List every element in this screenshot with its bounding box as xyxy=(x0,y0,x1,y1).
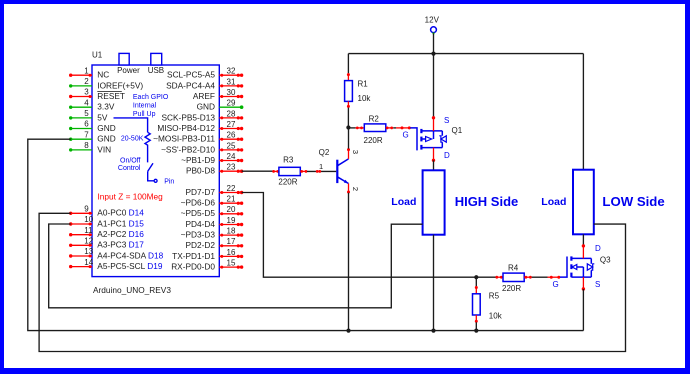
svg-text:U1: U1 xyxy=(92,51,103,60)
svg-text:26: 26 xyxy=(227,131,236,140)
U1 pin 29 GND xyxy=(197,99,244,112)
svg-text:220R: 220R xyxy=(364,136,383,145)
svg-text:28: 28 xyxy=(227,109,236,118)
junction node A (R1/R2/Q2 collector) xyxy=(346,125,350,129)
12V supply terminal xyxy=(425,16,440,35)
svg-text:29: 29 xyxy=(227,99,236,108)
wire high side load bottom to ground rail xyxy=(433,235,435,331)
internal pin terminal circle xyxy=(154,178,174,185)
svg-text:31: 31 xyxy=(227,77,236,86)
svg-text:PD4-D4: PD4-D4 xyxy=(185,219,215,229)
svg-text:VIN: VIN xyxy=(97,144,111,154)
resistor R5 xyxy=(473,294,481,315)
svg-text:220R: 220R xyxy=(502,284,521,293)
wire 12V rail to R1 xyxy=(347,54,350,81)
USB connector notch xyxy=(151,53,162,65)
U1 pin 4 3.3V xyxy=(69,98,115,111)
svg-text:A4-PC4-SDA D18: A4-PC4-SDA D18 xyxy=(97,250,163,260)
resistor R4 xyxy=(503,273,524,281)
wire 12V node to Q1 source xyxy=(432,54,435,131)
svg-text:GND: GND xyxy=(197,102,215,112)
U1 pin 28 SCK-PB5-D13 xyxy=(162,109,244,122)
svg-text:5: 5 xyxy=(84,109,89,118)
svg-text:D: D xyxy=(444,151,450,160)
U1 pin 14 A5-PC5-SCL xyxy=(69,258,163,271)
svg-text:Pull Up: Pull Up xyxy=(133,111,156,118)
svg-text:~PD5-D5: ~PD5-D5 xyxy=(181,208,216,218)
svg-text:~PD3-D3: ~PD3-D3 xyxy=(181,230,216,240)
svg-text:3: 3 xyxy=(84,88,89,97)
U1 pin 27 MISO-PB4-D12 xyxy=(157,120,243,133)
svg-text:IOREF(+5V): IOREF(+5V) xyxy=(97,80,143,90)
resistor R2 xyxy=(364,124,386,132)
U1 pin 31 SDA-PC4-A4 xyxy=(166,77,243,90)
svg-text:RESET: RESET xyxy=(97,91,125,101)
ground wire from U1 pin 7 GND (ground rail) xyxy=(28,139,584,330)
U1 pin 16 TX-PD1-D1 xyxy=(172,248,243,261)
svg-text:19: 19 xyxy=(227,216,236,225)
junction Q2 emitter / ground rail xyxy=(346,329,350,333)
svg-text:R2: R2 xyxy=(369,114,380,123)
U1 pin 2 IOREF(+5V) xyxy=(69,77,143,90)
svg-text:3: 3 xyxy=(351,150,360,154)
svg-text:15: 15 xyxy=(227,259,236,268)
wire U1 pin 23 PB0-D8 to R3 xyxy=(242,170,273,172)
U1 pin 24 ~PB1-D9 xyxy=(181,152,243,165)
wire 12V terminal to rail xyxy=(433,33,435,53)
U1 pin 13 A4-PC4-SDA xyxy=(69,247,164,260)
U1 pin 22 PD7-D7 xyxy=(185,184,243,197)
U1 pin 15 RX-PD0-D0 xyxy=(171,259,243,272)
wire R3 to Q2 base xyxy=(300,170,336,173)
junction high load / ground rail xyxy=(431,329,435,333)
U1 pin 21 ~PD6-D6 xyxy=(181,195,244,208)
svg-text:Load: Load xyxy=(391,196,416,208)
U1 pin 8 VIN xyxy=(69,141,111,154)
svg-text:12V: 12V xyxy=(425,16,440,25)
U1 pin 18 ~PD3-D3 xyxy=(181,227,244,240)
wire U1 pin 22 PD7-D7 to R4 and Q3 gate node xyxy=(242,193,496,278)
svg-text:13: 13 xyxy=(84,247,93,256)
svg-text:NC: NC xyxy=(97,70,109,80)
U1 pin 32 SCL-PC5-A5 xyxy=(167,67,243,80)
wire Q2 collector to node A xyxy=(347,128,350,159)
svg-text:27: 27 xyxy=(227,120,236,129)
U1 pin 12 A3-PC3 xyxy=(69,237,144,250)
svg-text:Q2: Q2 xyxy=(319,148,330,157)
svg-text:5V: 5V xyxy=(97,112,108,122)
wire R5 to ground rail xyxy=(475,315,478,331)
MOSFET Q1 (P-channel, high side) xyxy=(410,128,446,150)
svg-text:24: 24 xyxy=(227,152,236,161)
U1 pin 25 ~SS'-PB2-D10 xyxy=(161,141,243,154)
svg-text:USB: USB xyxy=(148,66,164,75)
svg-text:PD7-D7: PD7-D7 xyxy=(185,187,215,197)
svg-text:Arduino_UNO_REV3: Arduino_UNO_REV3 xyxy=(93,285,171,295)
U1 pin 10 A1-PC1 xyxy=(69,215,144,228)
svg-text:S: S xyxy=(595,280,600,289)
svg-text:1: 1 xyxy=(319,162,323,171)
svg-text:A0-PC0 D14: A0-PC0 D14 xyxy=(97,208,144,218)
svg-text:18: 18 xyxy=(227,227,236,236)
svg-text:A3-PC3 D17: A3-PC3 D17 xyxy=(97,240,144,250)
svg-text:30: 30 xyxy=(227,88,236,97)
U1 pin 17 PD2-D2 xyxy=(185,237,243,250)
U1 internal pull-up note: Each GPIO Internal Pull Up xyxy=(133,94,169,118)
svg-text:S: S xyxy=(444,116,449,125)
svg-text:9: 9 xyxy=(84,205,89,214)
svg-text:Input Z = 100Meg: Input Z = 100Meg xyxy=(98,192,164,202)
svg-text:10k: 10k xyxy=(489,312,503,321)
svg-text:22: 22 xyxy=(227,184,236,193)
wire Q1 drain to high side load xyxy=(432,148,435,171)
svg-text:~PD6-D6: ~PD6-D6 xyxy=(181,198,216,208)
svg-text:10k: 10k xyxy=(358,94,372,103)
svg-text:~SS'-PB2-D10: ~SS'-PB2-D10 xyxy=(161,144,215,154)
wire R2 to Q1 gate xyxy=(386,126,411,129)
wire Q3 source to ground rail xyxy=(582,277,585,331)
svg-text:14: 14 xyxy=(84,258,93,267)
svg-text:G: G xyxy=(553,280,559,289)
svg-text:Pin: Pin xyxy=(164,178,174,185)
wire 5V to internal pull-up resistor xyxy=(114,118,148,132)
svg-text:On/Off: On/Off xyxy=(120,158,141,165)
wire R1 to node A xyxy=(347,101,350,127)
resistor R3 xyxy=(279,167,300,175)
svg-text:20: 20 xyxy=(227,205,236,214)
U1 pin 19 PD4-D4 xyxy=(185,216,243,229)
wire R4/R5 node down to R5 xyxy=(475,277,478,294)
svg-text:R1: R1 xyxy=(358,79,369,88)
resistor R1 xyxy=(345,81,353,102)
svg-text:3.3V: 3.3V xyxy=(97,102,115,112)
svg-text:2: 2 xyxy=(84,77,89,86)
internal On/Off control switch xyxy=(118,158,154,181)
svg-text:RX-PD0-D0: RX-PD0-D0 xyxy=(171,262,215,272)
svg-text:AREF: AREF xyxy=(193,91,215,101)
svg-text:Load: Load xyxy=(541,196,566,208)
svg-text:Each GPIO: Each GPIO xyxy=(133,94,169,101)
svg-text:32: 32 xyxy=(227,67,236,76)
12V rail wire xyxy=(348,53,583,55)
svg-text:D: D xyxy=(595,244,601,253)
svg-text:G: G xyxy=(403,130,409,139)
svg-text:Power: Power xyxy=(117,66,140,75)
wire R4 to Q3 gate xyxy=(524,276,560,279)
wire node A to R2 xyxy=(348,127,364,130)
U1 pin 30 AREF xyxy=(193,88,243,101)
U1 pin 11 A2-PC2 xyxy=(69,226,144,239)
wire U1 pin 9 A0 sense to low side load bottom xyxy=(39,213,625,351)
svg-text:7: 7 xyxy=(84,130,89,139)
svg-text:PD2-D2: PD2-D2 xyxy=(185,240,215,250)
svg-text:6: 6 xyxy=(84,120,89,129)
svg-text:25: 25 xyxy=(227,141,236,150)
svg-text:GND: GND xyxy=(97,134,115,144)
svg-text:TX-PD1-D1: TX-PD1-D1 xyxy=(172,251,215,261)
high side load resistor xyxy=(423,170,445,234)
svg-text:PB0-D8: PB0-D8 xyxy=(186,166,215,176)
svg-text:HIGH Side: HIGH Side xyxy=(455,194,519,209)
svg-text:Control: Control xyxy=(118,165,141,172)
svg-text:R3: R3 xyxy=(283,156,294,165)
svg-text:16: 16 xyxy=(227,248,236,257)
U1 pin 1 NC xyxy=(69,66,109,79)
internal pull-up resistor 20-50K (zigzag) xyxy=(121,132,150,162)
svg-text:A5-PC5-SCL D19: A5-PC5-SCL D19 xyxy=(97,261,163,271)
U1 pin 20 ~PD5-D5 xyxy=(181,205,244,218)
svg-text:21: 21 xyxy=(227,195,236,204)
R3 left terminal marks xyxy=(272,170,279,173)
U1 pin 3 RESET xyxy=(69,88,125,101)
svg-text:17: 17 xyxy=(227,237,236,246)
svg-text:R4: R4 xyxy=(508,264,519,273)
junction 12V node xyxy=(431,52,435,56)
transistor Q2 (NPN) xyxy=(337,159,348,184)
svg-text:11: 11 xyxy=(84,226,93,235)
svg-text:LOW Side: LOW Side xyxy=(602,194,664,209)
svg-text:SCL-PC5-A5: SCL-PC5-A5 xyxy=(167,70,215,80)
wire low side load to Q3 drain xyxy=(582,234,585,258)
low side load resistor xyxy=(573,170,594,235)
MOSFET Q3 (N-channel, low side) xyxy=(560,256,594,277)
Power connector notch xyxy=(119,53,129,65)
IC U1 Arduino body xyxy=(92,65,219,277)
svg-text:SDA-PC4-A4: SDA-PC4-A4 xyxy=(166,80,215,90)
svg-text:10: 10 xyxy=(84,215,93,224)
svg-text:20-50K: 20-50K xyxy=(121,135,144,142)
U1 pin 9 A0-PC0 xyxy=(69,205,144,218)
U1 pin 7 GND xyxy=(69,130,116,143)
svg-text:Internal: Internal xyxy=(133,103,157,110)
wire 12V rail to low side load xyxy=(582,54,584,170)
svg-text:~MOSI-PB3-D11: ~MOSI-PB3-D11 xyxy=(153,134,215,144)
svg-text:1: 1 xyxy=(84,66,89,75)
svg-text:23: 23 xyxy=(227,163,236,172)
wire U1 pin 10 A1 sense to high side load bottom xyxy=(49,224,423,308)
svg-text:R5: R5 xyxy=(489,292,500,301)
svg-text:A2-PC2 D16: A2-PC2 D16 xyxy=(97,229,144,239)
svg-text:12: 12 xyxy=(84,237,93,246)
junction R4/R5 node xyxy=(474,275,478,279)
svg-text:Q1: Q1 xyxy=(452,126,463,135)
U1 pin 5 5V xyxy=(69,109,108,122)
U1 pin 26 ~MOSI-PB3-D11 xyxy=(153,131,243,144)
R4 left terminal marks xyxy=(495,276,503,279)
junction R5 / ground rail xyxy=(474,329,478,333)
svg-text:4: 4 xyxy=(84,98,89,107)
svg-text:8: 8 xyxy=(84,141,89,150)
svg-text:MISO-PB4-D12: MISO-PB4-D12 xyxy=(157,123,215,133)
wire Q2 emitter to ground rail xyxy=(347,184,350,331)
svg-text:A1-PC1 D15: A1-PC1 D15 xyxy=(97,218,144,228)
svg-text:GND: GND xyxy=(97,123,115,133)
svg-text:~PB1-D9: ~PB1-D9 xyxy=(181,155,215,165)
svg-text:SCK-PB5-D13: SCK-PB5-D13 xyxy=(162,112,216,122)
svg-text:220R: 220R xyxy=(278,178,297,187)
svg-text:2: 2 xyxy=(351,187,360,191)
svg-text:Q3: Q3 xyxy=(600,255,611,264)
U1 pin 6 GND xyxy=(69,120,116,133)
U1 pin 23 PB0-D8 xyxy=(186,163,243,176)
